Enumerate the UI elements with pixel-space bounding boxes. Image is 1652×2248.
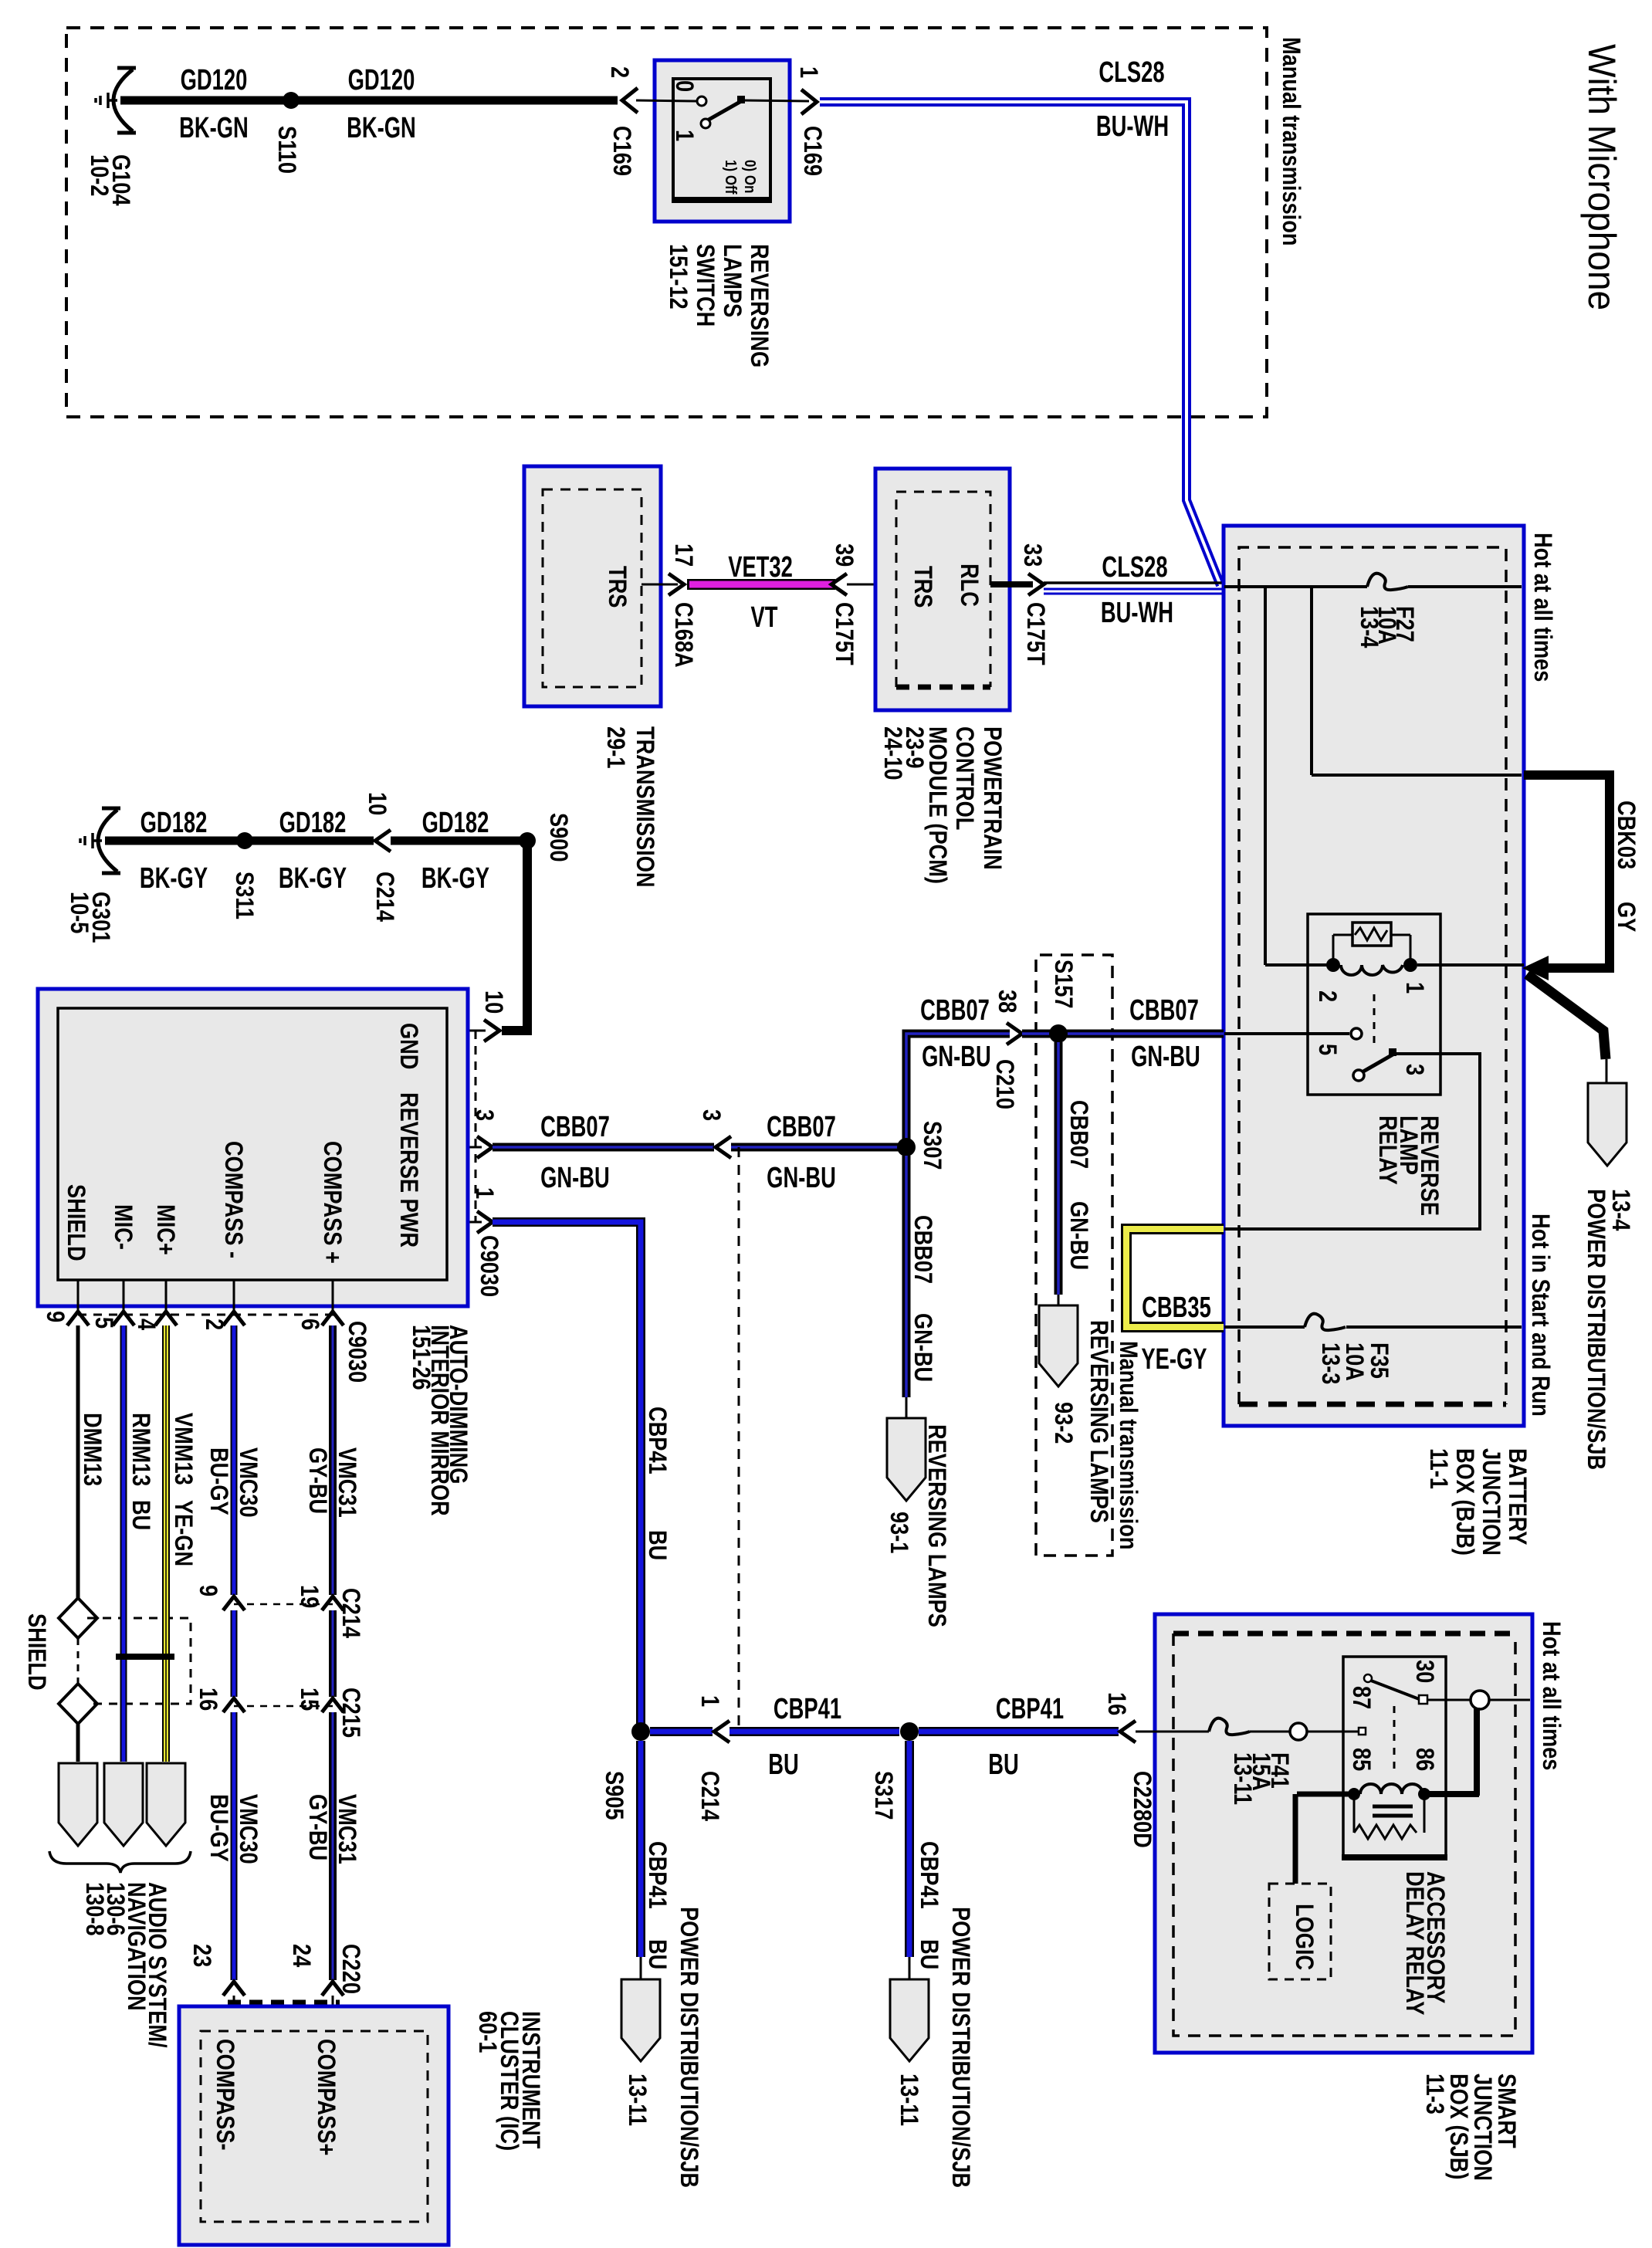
- relay coil row: [1265, 963, 1333, 967]
- battery junction box BJB: [1224, 526, 1524, 1426]
- svg-text:POWER DISTRIBUTION/SJB: POWER DISTRIBUTION/SJB: [946, 1907, 974, 2188]
- wire DMM13 shield: [76, 1325, 80, 1598]
- wire CBB35 YE-GY yellow loop: [1126, 1229, 1224, 1327]
- wire PCM pin 33: [990, 581, 1033, 587]
- svg-text:GN-BU: GN-BU: [909, 1313, 936, 1382]
- svg-text:2: 2: [1313, 990, 1341, 1002]
- svg-text:3: 3: [1400, 1064, 1428, 1075]
- instrument cluster box: [179, 2006, 449, 2245]
- svg-text:CBB07: CBB07: [1129, 994, 1199, 1027]
- svg-text:86: 86: [1410, 1748, 1438, 1771]
- svg-text:COMPASS+: COMPASS+: [312, 2039, 340, 2155]
- svg-text:23: 23: [188, 1944, 215, 1967]
- svg-text:CBB07: CBB07: [767, 1111, 836, 1143]
- pin lines into IC: [233, 1996, 235, 2057]
- shield tie bar: [116, 1654, 174, 1660]
- wire S317 down: [905, 1741, 914, 1957]
- svg-text:Hot at all times: Hot at all times: [1537, 1621, 1565, 1770]
- svg-text:VMC31: VMC31: [333, 1447, 361, 1518]
- switch contact 0: [697, 96, 706, 106]
- svg-text:CLS28: CLS28: [1102, 551, 1167, 584]
- svg-text:VT: VT: [751, 601, 778, 634]
- relay actuator dashed: [1373, 994, 1376, 1050]
- relay lever pin30: [1364, 1674, 1372, 1682]
- svg-text:POWER DISTRIBUTION/SJB: POWER DISTRIBUTION/SJB: [1582, 1189, 1610, 1470]
- svg-text:BU-GY: BU-GY: [205, 1447, 232, 1515]
- svg-text:GD120: GD120: [181, 64, 248, 96]
- svg-text:5: 5: [1313, 1044, 1341, 1055]
- svg-text:TRANSMISSION: TRANSMISSION: [631, 726, 658, 887]
- relay pin 5 wire: [1224, 1032, 1349, 1035]
- svg-text:BU-WH: BU-WH: [1096, 110, 1169, 143]
- svg-text:85: 85: [1347, 1748, 1375, 1771]
- connector C175T pin 39: [831, 574, 847, 595]
- relay resistor: [1352, 923, 1391, 946]
- fuse F27: [1367, 574, 1408, 590]
- svg-text:DELAY RELAY: DELAY RELAY: [1400, 1871, 1428, 2016]
- ground G104: [96, 68, 136, 133]
- auto-dimming interior mirror box: [38, 989, 468, 1306]
- svg-text:REVERSING: REVERSING: [745, 244, 773, 367]
- arrow POWER DISTRIBUTION/SJB right: [890, 1979, 929, 2061]
- svg-text:BU: BU: [643, 1939, 671, 1969]
- svg-text:11-3: 11-3: [1420, 2074, 1448, 2114]
- relay switch lever: [1353, 1070, 1364, 1081]
- svg-text:13-11: 13-11: [895, 2074, 922, 2126]
- svg-text:S110: S110: [273, 126, 300, 174]
- wire VMM13 YE-GN: [162, 1325, 170, 1762]
- wire CBK03 GY thick loop: [1524, 775, 1610, 968]
- svg-text:S900: S900: [544, 813, 572, 862]
- arrow power distribution 13-4: [1588, 1083, 1627, 1166]
- svg-text:TRS: TRS: [909, 566, 936, 608]
- svg-text:13-4: 13-4: [1606, 1189, 1634, 1231]
- shield diamond 2: [59, 1684, 97, 1724]
- svg-text:13-3: 13-3: [1316, 1342, 1344, 1384]
- svg-text:0: 0: [670, 80, 698, 92]
- connector C214 pin 10: [375, 830, 391, 851]
- svg-text:RELAY: RELAY: [1373, 1116, 1401, 1185]
- wire CBB07 GN-BU segment A: [493, 1143, 714, 1152]
- svg-text:C220: C220: [337, 1944, 364, 1994]
- connector C210 pin 38: [1007, 1023, 1022, 1044]
- svg-text:2: 2: [200, 1319, 228, 1330]
- svg-text:1: 1: [696, 1695, 723, 1707]
- svg-text:0) On: 0) On: [742, 160, 760, 193]
- svg-text:GN-BU: GN-BU: [767, 1162, 836, 1194]
- svg-text:10-2: 10-2: [85, 154, 113, 196]
- svg-text:CBK03: CBK03: [1612, 801, 1640, 869]
- brace: [49, 1851, 191, 1873]
- wire S900 to mirror pin 10: [502, 841, 527, 1031]
- splice S905: [631, 1722, 650, 1741]
- svg-text:13-11: 13-11: [1228, 1752, 1256, 1805]
- svg-text:GN-BU: GN-BU: [922, 1041, 991, 1073]
- switch contact 1: [701, 119, 710, 128]
- wire CBP41 BU segment right: [919, 1727, 1119, 1736]
- svg-text:JUNCTION: JUNCTION: [1477, 1448, 1505, 1556]
- switch lever: [709, 100, 743, 120]
- svg-text:GD120: GD120: [348, 64, 415, 96]
- wire branch to relay coil: [1264, 587, 1267, 965]
- svg-text:10: 10: [479, 990, 507, 1014]
- connector C9030 pin 1: [477, 1211, 493, 1233]
- wire CBB07 S157 down: [1055, 1042, 1063, 1295]
- relay parallel resistor: [1353, 1799, 1356, 1833]
- wire into switch: [636, 100, 697, 101]
- svg-text:1: 1: [670, 130, 698, 141]
- connector C2280D pin 16: [1120, 1721, 1136, 1742]
- svg-text:CBP41: CBP41: [915, 1841, 943, 1909]
- arrows audio system: [59, 1763, 97, 1846]
- svg-text:Hot at all times: Hot at all times: [1528, 533, 1556, 682]
- svg-text:CBB07: CBB07: [920, 994, 990, 1027]
- svg-text:C214: C214: [337, 1588, 364, 1638]
- svg-text:DMM13: DMM13: [78, 1413, 106, 1486]
- svg-text:BOX (BJB): BOX (BJB): [1451, 1448, 1478, 1556]
- svg-text:1: 1: [1400, 982, 1428, 994]
- svg-text:COMPASS-: COMPASS-: [211, 2039, 239, 2151]
- svg-text:GN-BU: GN-BU: [1065, 1201, 1092, 1270]
- svg-text:GD182: GD182: [140, 807, 208, 839]
- svg-text:BU: BU: [643, 1530, 671, 1560]
- svg-text:13-4: 13-4: [1355, 606, 1383, 648]
- svg-text:CBP41: CBP41: [996, 1693, 1064, 1725]
- svg-text:BATTERY: BATTERY: [1503, 1448, 1531, 1545]
- svg-text:VMC30: VMC30: [234, 1794, 262, 1864]
- svg-text:BU: BU: [768, 1749, 799, 1781]
- svg-text:S317: S317: [869, 1771, 897, 1820]
- connector pin 10: [484, 1020, 499, 1041]
- svg-text:BK-GY: BK-GY: [279, 862, 347, 895]
- svg-text:60-1: 60-1: [473, 2011, 501, 2053]
- svg-text:With Microphone: With Microphone: [1580, 44, 1623, 310]
- wire pin39 into PCM: [847, 584, 896, 586]
- svg-text:MIC+: MIC+: [151, 1204, 179, 1255]
- svg-text:C9030: C9030: [475, 1235, 503, 1297]
- svg-text:130-8: 130-8: [80, 1882, 108, 1936]
- wire RMM13 BU: [120, 1325, 127, 1762]
- svg-text:C210: C210: [990, 1059, 1018, 1109]
- svg-text:GN-BU: GN-BU: [1131, 1041, 1200, 1073]
- connector C215 pins 16/15: [234, 1705, 333, 1708]
- svg-text:5: 5: [90, 1317, 117, 1329]
- svg-text:S905: S905: [600, 1771, 628, 1820]
- svg-text:CBP41: CBP41: [774, 1693, 841, 1725]
- svg-text:13-11: 13-11: [623, 2074, 651, 2126]
- svg-text:VMC30: VMC30: [234, 1447, 262, 1518]
- svg-text:29-1: 29-1: [601, 726, 629, 768]
- svg-text:Manual transmission: Manual transmission: [1277, 37, 1305, 245]
- wire S905 down: [636, 1741, 645, 1957]
- svg-text:CONTROL: CONTROL: [950, 726, 978, 830]
- svg-text:4: 4: [132, 1319, 160, 1331]
- dashed box Manual transmission (top): [66, 28, 1267, 417]
- wire VMC30 mid: [231, 1610, 238, 1697]
- svg-text:REVERSING LAMPS: REVERSING LAMPS: [1085, 1320, 1112, 1523]
- svg-text:COMPASS +: COMPASS +: [318, 1141, 346, 1264]
- svg-text:S157: S157: [1049, 960, 1077, 1009]
- svg-text:BK-GN: BK-GN: [179, 112, 249, 144]
- svg-text:151-12: 151-12: [664, 244, 692, 310]
- svg-text:RMM13: RMM13: [127, 1413, 154, 1486]
- svg-text:C214: C214: [696, 1771, 723, 1821]
- svg-text:MIC-: MIC-: [109, 1204, 137, 1250]
- shield diamond 1: [59, 1598, 97, 1638]
- svg-text:19: 19: [295, 1585, 323, 1608]
- shield dashed box: [87, 1618, 191, 1704]
- wire VET32 VT: [687, 579, 835, 590]
- connector arrows bottom pins: [67, 1312, 89, 1325]
- wire into SJB to fuse F41: [1136, 1731, 1209, 1733]
- connector C214 pin 1: [714, 1721, 730, 1742]
- svg-text:2: 2: [605, 66, 633, 78]
- svg-text:F35: F35: [1365, 1342, 1393, 1379]
- dashed connector C9030 right: [475, 1031, 477, 1222]
- LOGIC box dashed: [1269, 1884, 1331, 1979]
- svg-text:Manual transmission: Manual transmission: [1114, 1341, 1142, 1549]
- wire GD120 segment 2: [296, 96, 618, 105]
- svg-text:C215: C215: [337, 1688, 364, 1738]
- connector C169 pin 2: [622, 88, 638, 113]
- svg-text:GY-BU: GY-BU: [303, 1447, 331, 1514]
- wire CBB07 GN-BU segment B: [731, 1143, 899, 1152]
- connector C9030 pin 3: [477, 1136, 493, 1158]
- wire VMC30 BU-GY top: [231, 1325, 238, 1595]
- svg-text:BK-GY: BK-GY: [140, 862, 208, 895]
- wire CLS28 BU-WH (PCM to BJB): [1044, 581, 1224, 584]
- wire CBB07 S307 down: [902, 1156, 911, 1397]
- fuse F35: [1305, 1314, 1346, 1330]
- smart junction box SJB: [1155, 1614, 1532, 2053]
- svg-text:SHIELD: SHIELD: [62, 1184, 90, 1261]
- connector C214 pins 9/19: [234, 1603, 333, 1606]
- svg-text:VMC31: VMC31: [333, 1794, 361, 1864]
- connector C220 pins 23/24: [228, 2000, 340, 2006]
- relay coil row: [1297, 1792, 1349, 1797]
- fuse F41: [1209, 1718, 1250, 1735]
- svg-text:16: 16: [194, 1688, 222, 1711]
- svg-text:Hot in Start and Run: Hot in Start and Run: [1526, 1214, 1554, 1417]
- svg-text:24-10: 24-10: [878, 726, 906, 780]
- wire VMC31 GY-BU top: [329, 1325, 337, 1595]
- svg-text:RLC: RLC: [955, 564, 983, 607]
- svg-text:S311: S311: [230, 872, 258, 919]
- svg-text:CBP41: CBP41: [643, 1841, 671, 1909]
- wire VMC31 mid: [329, 1610, 337, 1697]
- svg-text:38: 38: [993, 990, 1021, 1013]
- svg-text:BU-GY: BU-GY: [205, 1794, 232, 1862]
- svg-text:GY: GY: [1612, 902, 1640, 932]
- wire CBP41 BU segment mid: [730, 1727, 899, 1736]
- svg-text:VET32: VET32: [728, 551, 793, 584]
- reversing lamps switch box: [655, 60, 790, 222]
- splice S311: [236, 832, 253, 849]
- svg-text:GN-BU: GN-BU: [540, 1162, 610, 1194]
- svg-text:GD182: GD182: [422, 807, 489, 839]
- svg-text:POWER DISTRIBUTION/SJB: POWER DISTRIBUTION/SJB: [675, 1907, 702, 2188]
- svg-text:REVERSE PWR: REVERSE PWR: [394, 1092, 422, 1248]
- svg-text:GND: GND: [394, 1023, 422, 1069]
- svg-text:93-2: 93-2: [1049, 1402, 1077, 1444]
- svg-text:151-26: 151-26: [407, 1325, 435, 1390]
- svg-text:LAMPS: LAMPS: [718, 244, 746, 317]
- svg-text:LOGIC: LOGIC: [1290, 1904, 1318, 1970]
- svg-text:6: 6: [296, 1319, 323, 1330]
- reverse lamp relay box: [1308, 914, 1440, 1095]
- wire VMC30 BU-GY lower: [231, 1712, 238, 1980]
- svg-text:9: 9: [41, 1311, 69, 1322]
- connector C175T pin 33: [1028, 574, 1044, 595]
- svg-text:9: 9: [194, 1585, 222, 1596]
- splice S317: [900, 1722, 919, 1741]
- svg-text:C214: C214: [371, 872, 398, 922]
- svg-text:C2280D: C2280D: [1128, 1771, 1156, 1848]
- svg-text:REVERSING LAMPS: REVERSING LAMPS: [922, 1424, 950, 1627]
- wire GD182 segment 1: [105, 837, 239, 845]
- arrow REVERSING LAMPS 93-1: [887, 1418, 926, 1501]
- relay pin 3 wire: [1224, 1054, 1480, 1229]
- svg-text:BU: BU: [915, 1939, 943, 1969]
- PCM box: [875, 469, 1010, 710]
- wire GD120 segment 1: [120, 96, 286, 105]
- wire fuse F27 row: [1224, 585, 1367, 588]
- svg-text:SWITCH: SWITCH: [691, 244, 719, 327]
- svg-text:17: 17: [669, 543, 697, 567]
- mirror pin 1 wire: [447, 1221, 482, 1224]
- svg-text:YE-GN: YE-GN: [169, 1500, 197, 1566]
- wire CLS28 BU-WH (switch to BJB): [820, 102, 1220, 585]
- svg-text:POWERTRAIN: POWERTRAIN: [978, 726, 1006, 870]
- svg-text:24: 24: [287, 1944, 315, 1968]
- wire branch to CBK03: [1310, 587, 1313, 775]
- svg-text:SHIELD: SHIELD: [22, 1613, 50, 1691]
- dashed connector line C214 vertical: [738, 1147, 740, 1732]
- svg-text:TRS: TRS: [603, 566, 631, 608]
- svg-text:S307: S307: [918, 1121, 946, 1170]
- svg-text:C175T: C175T: [830, 602, 858, 665]
- svg-text:16: 16: [1102, 1692, 1130, 1715]
- wire CBB07 C210 to BJB: [1022, 1030, 1224, 1038]
- svg-text:C169: C169: [608, 126, 635, 176]
- svg-text:10: 10: [363, 792, 391, 815]
- wire to pin 1: [743, 100, 809, 101]
- svg-text:1) Off: 1) Off: [723, 160, 740, 195]
- wire to LOGIC: [1293, 1794, 1298, 1884]
- svg-text:C9030: C9030: [343, 1321, 371, 1383]
- svg-text:BU-WH: BU-WH: [1101, 597, 1173, 629]
- wire fuse F35 row: [1224, 1325, 1305, 1329]
- wire thick branch to power distribution: [1527, 974, 1606, 1059]
- wire TRS pin 17: [642, 584, 678, 586]
- svg-text:BK-GN: BK-GN: [347, 112, 416, 144]
- relay actuator dashed: [1393, 1706, 1396, 1769]
- connector C168A pin 17: [669, 574, 684, 595]
- wire CBB07 S307 up to C210: [906, 1034, 1010, 1147]
- wire GD182 segment 2: [251, 837, 374, 845]
- svg-text:GY-BU: GY-BU: [303, 1794, 331, 1860]
- wire CBP41 BU pin1 to S905: [493, 1222, 641, 1732]
- svg-text:11-1: 11-1: [1424, 1448, 1452, 1489]
- svg-text:33: 33: [1018, 543, 1046, 567]
- svg-text:BU: BU: [988, 1749, 1019, 1781]
- splice S307: [897, 1138, 916, 1156]
- connector C169 pin 1: [801, 90, 817, 114]
- splice S157: [1049, 1024, 1068, 1043]
- svg-text:CBB07: CBB07: [909, 1215, 936, 1284]
- dashed box Manual transmission (S157): [1036, 955, 1112, 1556]
- svg-text:87: 87: [1347, 1686, 1375, 1709]
- wire F41 to junction circle: [1250, 1731, 1290, 1733]
- svg-text:CLS28: CLS28: [1099, 56, 1164, 89]
- svg-text:3: 3: [697, 1109, 725, 1121]
- svg-text:COMPASS -: COMPASS -: [219, 1141, 247, 1258]
- svg-text:CBP41: CBP41: [643, 1407, 671, 1474]
- connector pin 3 mid: [716, 1136, 731, 1158]
- dashed connector C9030 bottom: [78, 1314, 336, 1316]
- svg-text:BK-GY: BK-GY: [421, 862, 489, 895]
- mirror pin 3 wire: [447, 1146, 482, 1149]
- arrow REVERSING LAMPS 93-2: [1039, 1305, 1078, 1386]
- svg-text:VMM13: VMM13: [169, 1413, 197, 1485]
- svg-text:10-5: 10-5: [65, 892, 93, 933]
- svg-text:BU: BU: [127, 1500, 154, 1530]
- accessory delay relay box: [1343, 1657, 1446, 1857]
- arrow POWER DISTRIBUTION/SJB left: [621, 1979, 660, 2061]
- wire VMC31 GY-BU lower: [329, 1712, 337, 1980]
- relay capacitor: [1373, 1805, 1413, 1809]
- transmission box TRS: [524, 466, 661, 706]
- mirror bottom pin stubs: [77, 1280, 80, 1312]
- svg-text:CBB07: CBB07: [1065, 1100, 1092, 1169]
- splice S900: [519, 832, 536, 849]
- svg-text:39: 39: [830, 543, 858, 567]
- splice S110: [283, 92, 300, 109]
- svg-text:1: 1: [794, 66, 822, 78]
- wire GD182 segment 3: [391, 837, 523, 845]
- ground G301: [80, 808, 120, 873]
- svg-text:C168A: C168A: [669, 602, 697, 668]
- svg-text:C175T: C175T: [1021, 602, 1049, 665]
- svg-text:CBB07: CBB07: [540, 1111, 610, 1143]
- svg-text:30: 30: [1410, 1660, 1438, 1683]
- svg-text:93-1: 93-1: [885, 1512, 912, 1553]
- svg-text:15: 15: [295, 1688, 323, 1711]
- svg-text:YE-GY: YE-GY: [1141, 1343, 1207, 1376]
- svg-text:C169: C169: [798, 126, 826, 176]
- svg-text:CBB35: CBB35: [1142, 1292, 1211, 1324]
- wire CBP41 S905 to C214: [650, 1727, 713, 1736]
- svg-text:GD182: GD182: [279, 807, 347, 839]
